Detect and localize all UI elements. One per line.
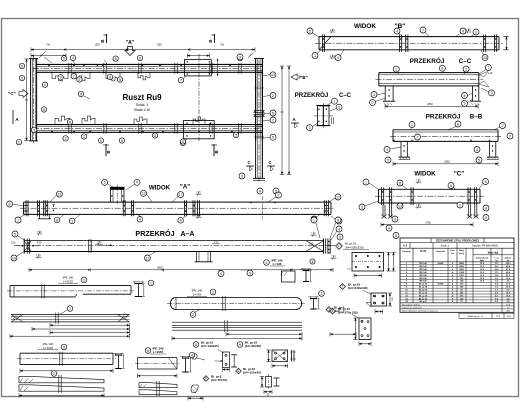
widok C left plates <box>381 187 383 205</box>
svg-text:5: 5 <box>272 111 274 115</box>
svg-text:L=1067: L=1067 <box>153 350 164 354</box>
plate 95x60 side view <box>291 350 293 362</box>
svg-text:PRZEKRÓJ: PRZEKRÓJ <box>410 56 445 65</box>
row1 I-section symbol <box>135 283 143 285</box>
beam L=1067 dim <box>138 375 178 377</box>
svg-text:7: 7 <box>487 66 489 70</box>
svg-text:5: 5 <box>485 216 487 220</box>
A-A mid splice <box>89 239 91 253</box>
detail beam row3 <box>20 352 113 354</box>
svg-text:Bl. gr.10: Bl. gr.10 <box>419 291 428 294</box>
balloons right of A-A dim <box>386 225 392 231</box>
svg-text:IPE 140: IPE 140 <box>419 262 427 265</box>
svg-text:7: 7 <box>417 135 419 139</box>
svg-text:Bl. gr.10: Bl. gr.10 <box>419 297 428 300</box>
svg-text:1: 1 <box>365 180 367 184</box>
svg-text:"C": "C" <box>454 171 464 178</box>
svg-text:(b4=95x60): (b4=95x60) <box>245 344 261 348</box>
square piece 138 <box>282 271 296 282</box>
svg-text:17: 17 <box>179 193 183 197</box>
svg-text:(b4=140x65): (b4=140x65) <box>201 344 219 348</box>
diamond label right of mid beam <box>326 307 332 313</box>
svg-text:8: 8 <box>332 309 334 313</box>
svg-text:Licz-: Licz- <box>450 250 455 252</box>
svg-text:St3SX: St3SX <box>438 283 444 286</box>
svg-text:4: 4 <box>464 94 466 98</box>
vertical piece dims <box>264 391 272 393</box>
svg-text:1: 1 <box>411 123 413 127</box>
widok A bolts on centerline <box>53 205 54 206</box>
svg-text:C: C <box>247 160 250 165</box>
widok A left end plates <box>25 200 27 216</box>
widok A left bracket below <box>39 214 41 218</box>
svg-text:2: 2 <box>272 118 274 122</box>
svg-text:4: 4 <box>394 217 396 221</box>
C-C small balloons <box>331 98 337 104</box>
svg-text:St3SX: St3SX <box>438 262 444 265</box>
small curved piece <box>191 385 198 393</box>
detail beam row1 (top view) <box>10 285 131 287</box>
svg-text:8: 8 <box>9 202 11 206</box>
svg-text:8: 8 <box>485 180 487 184</box>
svg-text:4: 4 <box>386 148 388 152</box>
svg-text:10: 10 <box>12 256 16 260</box>
svg-text:5: 5 <box>63 345 65 349</box>
svg-text:(b4=270x130): (b4=270x130) <box>338 311 358 315</box>
mid beam I-section <box>310 298 317 300</box>
table summary rows <box>400 302 514 304</box>
svg-text:8: 8 <box>457 122 459 126</box>
svg-text:IPE 140: IPE 140 <box>419 280 427 283</box>
widok C left anchor rods <box>382 205 384 217</box>
svg-text:B: B <box>100 39 105 42</box>
table data rows <box>400 264 514 266</box>
svg-text:1: 1 <box>150 281 152 285</box>
svg-text:5: 5 <box>205 377 207 381</box>
label Bl gr8 70x70 <box>203 376 209 382</box>
svg-text:PRZEKRÓJ: PRZEKRÓJ <box>295 91 329 99</box>
widok B balloons <box>307 28 313 34</box>
svg-text:5: 5 <box>154 134 156 138</box>
widok A top stub <box>110 187 125 190</box>
A-A beam <box>24 240 324 242</box>
A-A step-down bracket <box>196 252 198 262</box>
svg-text:6: 6 <box>43 108 45 112</box>
bolted plate top-right of plan <box>184 60 211 76</box>
svg-text:5: 5 <box>104 181 106 185</box>
bracket balloon <box>192 354 198 360</box>
svg-text:(b4=105x330): (b4=105x330) <box>345 246 364 250</box>
widok A balloon leaders <box>13 204 24 206</box>
svg-text:9: 9 <box>462 29 464 33</box>
svg-text:(b4=70x70): (b4=70x70) <box>211 378 227 382</box>
svg-text:7: 7 <box>73 75 75 79</box>
widok B end cut diagonal <box>319 37 331 50</box>
svg-text:Bl. gr.15: Bl. gr.15 <box>419 294 428 297</box>
svg-text:4: 4 <box>388 226 390 230</box>
svg-text:1: 1 <box>18 140 20 144</box>
B-B bolts at beam bottom <box>393 140 394 141</box>
bottom middle wedges <box>139 383 177 388</box>
widok C mid plates <box>410 187 412 205</box>
C-C dim line <box>385 105 478 107</box>
plan frame left member <box>30 59 32 141</box>
curved piece dims <box>188 397 203 399</box>
widok A balloons <box>7 201 13 207</box>
svg-text:Gatunek: PN-88/H-84020: Gatunek: PN-88/H-84020 <box>472 245 499 248</box>
steel schedule table frame <box>400 238 514 312</box>
svg-text:3: 3 <box>361 205 363 209</box>
svg-text:9: 9 <box>44 83 46 87</box>
svg-text:5: 5 <box>272 136 274 140</box>
gusset detail on top beam mid <box>138 72 150 80</box>
svg-text:5: 5 <box>249 271 251 275</box>
svg-text:WIDOK: WIDOK <box>149 185 171 192</box>
svg-text:13: 13 <box>271 73 275 77</box>
bolt dots on plan top beam <box>48 65 50 67</box>
C-C right end weld arrows <box>479 72 488 77</box>
svg-text:5: 5 <box>309 29 311 33</box>
B-B beam body <box>393 129 498 131</box>
svg-text:Pozycja: Pozycja <box>402 251 411 253</box>
svg-text:8: 8 <box>195 343 197 347</box>
svg-text:PRZEKRÓJ: PRZEKRÓJ <box>426 112 461 121</box>
svg-text:9: 9 <box>100 139 102 143</box>
svg-text:7: 7 <box>342 285 344 289</box>
svg-text:B: B <box>208 39 213 42</box>
small I symbol right of bracket <box>231 354 237 356</box>
svg-text:(mm): (mm) <box>459 253 464 255</box>
svg-text:4: 4 <box>337 56 339 60</box>
svg-text:Profil: Profil <box>420 250 426 253</box>
svg-text:1: 1 <box>71 219 73 223</box>
tall plate 270x130 <box>359 318 371 340</box>
svg-text:8: 8 <box>337 218 339 222</box>
svg-text:5: 5 <box>491 91 493 95</box>
svg-text:"A": "A" <box>126 40 135 46</box>
svg-text:kg: kg <box>507 260 509 262</box>
svg-text:IPE 140: IPE 140 <box>419 265 427 268</box>
svg-text:10: 10 <box>483 56 487 60</box>
bolted plate bottom-right of plan <box>184 121 215 139</box>
svg-text:9: 9 <box>239 343 241 347</box>
small vertical piece <box>266 377 272 388</box>
widok A splice at stub <box>122 200 124 216</box>
svg-text:4: 4 <box>476 148 478 152</box>
svg-text:4: 4 <box>180 219 182 223</box>
svg-text:6: 6 <box>139 56 141 60</box>
widok A splice 2 <box>184 200 186 216</box>
label IPE 140 L=1067 <box>145 348 151 354</box>
widok C beam <box>379 188 481 190</box>
svg-text:Ru9: Ru9 <box>403 245 408 248</box>
svg-text:2: 2 <box>212 290 214 294</box>
B-B right leg <box>489 141 491 156</box>
svg-text:4: 4 <box>373 93 375 97</box>
C-C balloons <box>393 66 399 72</box>
cross-beam centerline in plan <box>198 54 200 141</box>
row1 balloon <box>148 280 154 286</box>
table header row <box>400 261 514 263</box>
svg-text:IPE 140: IPE 140 <box>419 274 427 277</box>
tall plate dims <box>355 318 357 340</box>
svg-text:5: 5 <box>63 57 65 61</box>
right elevation vertical dims <box>281 66 283 175</box>
B-B left leg <box>400 141 402 156</box>
svg-text:17: 17 <box>337 244 341 248</box>
row3 dim <box>20 370 113 372</box>
svg-text:L=763: L=763 <box>193 293 202 297</box>
widok B splice plates <box>399 35 401 53</box>
svg-text:3: 3 <box>21 76 23 80</box>
widok B right end plates <box>483 35 485 53</box>
beam L=1067 I-section <box>182 357 189 359</box>
svg-text:9: 9 <box>109 75 111 79</box>
widok C right anchor rods <box>468 205 470 217</box>
svg-text:7: 7 <box>509 134 511 138</box>
B-B dim line <box>393 163 498 165</box>
svg-text:Sztuk: 1: Sztuk: 1 <box>136 103 148 107</box>
widok A right end plates <box>323 200 325 216</box>
detail wedge rails row4 <box>19 376 104 382</box>
svg-text:WIDOK: WIDOK <box>414 171 436 178</box>
svg-text:4: 4 <box>396 29 398 33</box>
svg-text:13: 13 <box>142 192 146 196</box>
C-C beam body <box>379 72 479 74</box>
widok C right plates <box>467 187 469 205</box>
svg-text:5: 5 <box>78 78 80 82</box>
plan left vertical dim line <box>26 59 28 141</box>
svg-text:5: 5 <box>338 106 340 110</box>
row3 I-section <box>115 354 122 356</box>
A-A left end detail <box>23 238 25 253</box>
svg-text:L=1329: L=1329 <box>43 346 53 350</box>
mid strip dims <box>226 333 302 335</box>
svg-text:5: 5 <box>339 235 341 239</box>
svg-text:5: 5 <box>115 57 117 61</box>
C-C small section channels <box>318 106 324 126</box>
svg-text:5: 5 <box>387 158 389 162</box>
vertical piece I symbol <box>274 377 280 379</box>
svg-text:5: 5 <box>121 139 123 143</box>
svg-text:17: 17 <box>146 256 150 260</box>
svg-text:13: 13 <box>398 204 402 208</box>
svg-text:7: 7 <box>278 193 280 197</box>
widok C dim line <box>381 224 473 226</box>
svg-text:Dodatek na spoiny 2%: Dodatek na spoiny 2% <box>402 306 422 309</box>
svg-text:3: 3 <box>83 278 85 282</box>
svg-text:1852: 1852 <box>427 103 433 106</box>
svg-text:3: 3 <box>239 55 241 59</box>
plan view secondary top dim <box>31 55 66 57</box>
label Bl gr15 140x65 <box>193 342 199 348</box>
gusset detail on bottom beam mid <box>134 117 147 125</box>
plan frame top beam <box>36 63 262 65</box>
svg-text:6: 6 <box>450 184 452 188</box>
svg-text:1: 1 <box>314 54 316 58</box>
svg-text:4: 4 <box>485 206 487 210</box>
bolt dots on plan bottom beam <box>51 131 53 133</box>
svg-text:PRZEKRÓJ: PRZEKRÓJ <box>135 229 174 238</box>
svg-text:B: B <box>106 150 111 153</box>
svg-text:1.10: 1.10 <box>488 72 493 75</box>
detail strip row2 (plate side view) <box>11 314 130 322</box>
svg-text:L=138: L=138 <box>273 262 282 266</box>
row4 dims <box>19 394 104 396</box>
plan beam splice ticks <box>68 63 70 74</box>
svg-text:kg/m: kg/m <box>480 260 485 262</box>
C-C right leg <box>472 86 474 101</box>
svg-text:2: 2 <box>272 94 274 98</box>
widok A mid centerline mark <box>262 196 264 220</box>
svg-text:2: 2 <box>192 313 194 317</box>
svg-text:(b4=125x45): (b4=125x45) <box>243 371 261 375</box>
plate 240 dims <box>389 293 391 306</box>
svg-text:1: 1 <box>313 218 315 222</box>
C-C small dims right <box>331 117 333 124</box>
svg-text:6: 6 <box>238 369 240 373</box>
svg-text:3: 3 <box>33 128 35 132</box>
svg-text:2: 2 <box>465 67 467 71</box>
svg-text:2: 2 <box>53 372 55 376</box>
svg-text:5: 5 <box>119 78 121 82</box>
svg-text:3.50: 3.50 <box>214 242 219 244</box>
gusset detail on top beam left <box>52 72 68 81</box>
svg-text:WIDOK: WIDOK <box>354 23 376 30</box>
svg-text:1250: 1250 <box>94 44 100 46</box>
splice plates on right elevation <box>254 110 265 112</box>
svg-text:"B": "B" <box>300 75 307 80</box>
svg-text:5: 5 <box>478 158 480 162</box>
C-C left leg <box>384 86 386 101</box>
svg-text:150.2: 150.2 <box>505 263 511 265</box>
A-A left balloons <box>12 231 18 237</box>
svg-text:8: 8 <box>441 67 443 71</box>
svg-text:B: B <box>214 150 219 153</box>
svg-text:4: 4 <box>312 260 314 264</box>
svg-text:9: 9 <box>60 76 62 80</box>
table footer caption <box>459 313 514 318</box>
widok C balloons <box>363 179 369 185</box>
svg-text:ZESTAWIENIE STALI PROFILOWEJ: ZESTAWIENIE STALI PROFILOWEJ <box>436 239 480 243</box>
table title row <box>400 242 514 244</box>
svg-text:Skala 1:10: Skala 1:10 <box>134 108 150 112</box>
svg-text:4: 4 <box>72 56 74 60</box>
svg-text:Masa całkowita 1 elementu ze s: Masa całkowita 1 elementu ze spoinami: <box>402 309 438 312</box>
svg-text:2: 2 <box>502 124 504 128</box>
svg-text:5: 5 <box>372 101 374 105</box>
svg-text:Ruszt Ru9: Ruszt Ru9 <box>122 93 162 102</box>
svg-text:4: 4 <box>266 261 268 265</box>
plan frame bottom beam <box>36 124 262 126</box>
svg-text:1: 1 <box>69 307 71 311</box>
svg-text:Masa blach: 46,8 kg: Masa blach: 46,8 kg <box>402 304 420 306</box>
svg-text:5820: 5820 <box>157 267 163 270</box>
svg-text:5: 5 <box>235 133 237 137</box>
svg-text:A–A: A–A <box>180 231 194 238</box>
svg-text:17: 17 <box>336 195 340 199</box>
svg-text:"C": "C" <box>8 91 16 96</box>
label Bl gr16 95x60 <box>237 342 243 348</box>
svg-text:3: 3 <box>241 174 243 178</box>
balloons right elevation <box>270 72 276 78</box>
A-A right end detail <box>323 238 325 253</box>
right cross-beam side elevation <box>255 64 257 178</box>
svg-text:3: 3 <box>475 30 477 34</box>
label Bl gr10 125x45 <box>236 368 242 374</box>
svg-text:4: 4 <box>259 189 261 193</box>
widok B left end plates <box>321 35 323 53</box>
svg-text:2: 2 <box>321 292 323 296</box>
svg-text:C: C <box>268 160 271 165</box>
plan frame right member <box>255 59 257 141</box>
svg-text:4: 4 <box>139 218 141 222</box>
svg-text:9: 9 <box>80 92 82 96</box>
widok A left plate set 2 <box>37 200 39 216</box>
tick marks on right elevation <box>254 87 264 89</box>
gusset detail on bottom beam left <box>55 116 70 125</box>
svg-text:2: 2 <box>83 135 85 139</box>
svg-text:8: 8 <box>399 181 401 185</box>
B-B leg foot hatches <box>400 157 411 159</box>
svg-text:B–B: B–B <box>470 114 483 121</box>
A-A right balloons <box>311 217 317 223</box>
svg-text:2: 2 <box>459 203 461 207</box>
svg-text:Bl. gr.16: Bl. gr.16 <box>419 283 428 286</box>
mid beam balloon left <box>190 312 196 318</box>
svg-text:4: 4 <box>136 181 138 185</box>
widok B beam <box>319 36 499 38</box>
svg-text:(b4=240x240): (b4=240x240) <box>348 286 368 290</box>
svg-text:6: 6 <box>147 349 149 353</box>
svg-text:L=2262: L=2262 <box>63 280 73 284</box>
bracket plate with holes <box>223 352 230 368</box>
A-A bottom dim line <box>29 269 333 271</box>
label IPE 140 L=138 <box>264 260 270 266</box>
svg-text:12: 12 <box>57 192 61 196</box>
svg-text:1250: 1250 <box>156 44 162 46</box>
beam L=1067 <box>138 357 178 359</box>
six-hole plate <box>352 253 384 272</box>
anchor plate 240x240 <box>371 293 387 306</box>
svg-text:3.50: 3.50 <box>11 242 16 244</box>
svg-text:5: 5 <box>464 102 466 106</box>
svg-text:Masa (kg): Masa (kg) <box>488 252 499 254</box>
label Bl gr10 240x240 <box>340 284 346 290</box>
svg-text:2: 2 <box>65 137 67 141</box>
svg-text:1.50: 1.50 <box>309 244 314 246</box>
six-hole plate dims <box>388 253 390 272</box>
mid-row right dim marks <box>330 333 356 335</box>
svg-text:IPE 140: IPE 140 <box>419 268 427 271</box>
table subtitle row <box>400 247 514 249</box>
svg-text:4: 4 <box>338 227 340 231</box>
svg-text:1852: 1852 <box>444 161 450 164</box>
balloon leaders in plan <box>44 57 52 63</box>
mid strips <box>172 322 302 325</box>
svg-text:3.50: 3.50 <box>97 242 102 244</box>
svg-text:IPE 140: IPE 140 <box>419 271 427 274</box>
svg-text:3.50: 3.50 <box>37 242 42 244</box>
svg-text:kg: kg <box>495 260 497 262</box>
row2 dim lines <box>50 324 130 326</box>
svg-text:5: 5 <box>182 140 184 144</box>
svg-text:Układ wg rys. nr: Układ wg rys. nr <box>467 315 483 318</box>
mid pill beam <box>171 298 302 310</box>
section marker B arrow right <box>291 74 300 80</box>
B-B balloons <box>409 122 415 128</box>
svg-text:6: 6 <box>69 120 71 124</box>
